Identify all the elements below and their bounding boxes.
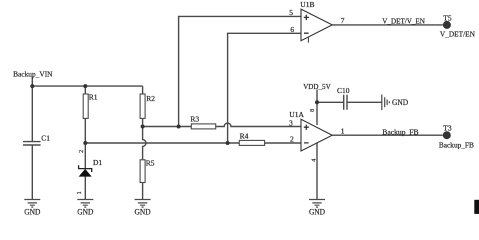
- wire R4 right to U1A pin2: [265, 142, 301, 144]
- resistor R4: [239, 131, 264, 145]
- wire R3 right to U1A pin3 with hop: [216, 123, 301, 126]
- node junction R2/R5/R3: [141, 125, 145, 129]
- svg-text:GND: GND: [135, 208, 151, 217]
- svg-text:R4: R4: [240, 131, 249, 140]
- sheet border fragment (bottom right): [474, 200, 479, 214]
- wire D1 bottom to ground: [84, 177, 86, 200]
- svg-text:3: 3: [289, 118, 293, 127]
- svg-text:5: 5: [289, 8, 293, 17]
- svg-text:R3: R3: [190, 115, 199, 124]
- svg-text:GND: GND: [24, 208, 40, 217]
- svg-text:R2: R2: [146, 94, 155, 103]
- svg-text:GND: GND: [77, 208, 93, 217]
- svg-text:U1B: U1B: [300, 0, 314, 9]
- diode D1 (zener): [77, 150, 102, 195]
- svg-text:2: 2: [290, 135, 294, 144]
- wire D1 top: [84, 143, 86, 168]
- wire C10 to ground: [347, 101, 381, 103]
- wire R2 top: [142, 86, 144, 94]
- wire U1A output to T3: [332, 134, 443, 136]
- wire R1 bottom to node: [84, 118, 86, 143]
- svg-text:GND: GND: [392, 98, 408, 107]
- svg-text:8: 8: [310, 109, 316, 112]
- wire node to R5 top: [143, 127, 146, 160]
- node junction R1/D1/R4: [83, 141, 87, 145]
- svg-text:Backup_FB: Backup_FB: [382, 127, 418, 136]
- svg-text:GND: GND: [309, 208, 325, 217]
- op-amp U1B: [289, 0, 345, 43]
- wire U1B output to T5: [332, 24, 443, 26]
- wire R2 bottom to node: [142, 118, 144, 126]
- wire node to R4 left with hop: [85, 142, 239, 144]
- terminal T5: [440, 13, 476, 38]
- capacitor C10: [337, 86, 350, 110]
- svg-text:Backup_VIN: Backup_VIN: [13, 69, 53, 78]
- svg-text:1: 1: [77, 191, 83, 194]
- svg-text:C10: C10: [337, 86, 350, 95]
- svg-text:6: 6: [290, 25, 294, 34]
- node junction Backup_VIN/C1: [30, 84, 34, 88]
- svg-text:4: 4: [311, 159, 317, 162]
- ground (sideways, right of C10): [382, 95, 408, 111]
- resistor R5: [140, 158, 155, 182]
- wire R5 bottom to ground: [142, 183, 144, 200]
- ground under U1A pin4: [309, 200, 325, 217]
- svg-text:R5: R5: [146, 158, 155, 167]
- wire node to C10: [317, 101, 343, 103]
- svg-text:1: 1: [341, 127, 345, 136]
- wire Backup_VIN rail: [32, 85, 142, 87]
- resistor R2: [140, 94, 155, 119]
- wire C1 top: [31, 86, 33, 141]
- wire to U1B pin5: [179, 16, 301, 126]
- ground under R5: [135, 200, 151, 217]
- wire U1A pin4 to ground: [316, 143, 318, 200]
- node junction rail/R1: [83, 84, 87, 88]
- resistor R3: [190, 115, 215, 129]
- svg-text:7: 7: [341, 16, 345, 25]
- wire U1A pin8: [316, 102, 318, 125]
- terminal T3: [439, 123, 474, 149]
- svg-text:V_DET/V_EN: V_DET/V_EN: [382, 16, 425, 25]
- node Backup_VIN label stub: [31, 77, 33, 87]
- wire C1 bottom to ground: [31, 145, 33, 199]
- svg-text:T3: T3: [443, 123, 452, 132]
- capacitor C1: [23, 134, 50, 146]
- svg-text:2: 2: [79, 150, 85, 153]
- wire VDD_5V stub: [316, 90, 318, 103]
- svg-text:T5: T5: [443, 13, 452, 22]
- node junction VDD/pin8/C10: [315, 100, 319, 104]
- svg-text:V_DET/EN: V_DET/EN: [440, 29, 476, 38]
- op-amp U1A: [289, 109, 345, 162]
- svg-text:R1: R1: [89, 93, 98, 102]
- svg-text:VDD_5V: VDD_5V: [303, 82, 331, 91]
- node junction pin5 branch: [177, 125, 181, 129]
- svg-text:C1: C1: [41, 134, 50, 143]
- resistor R1: [83, 93, 98, 119]
- wire R1 top: [84, 86, 86, 94]
- ground under D1: [77, 200, 93, 217]
- svg-text:D1: D1: [93, 158, 102, 167]
- wire to U1B pin6: [228, 33, 301, 143]
- node junction pin6 branch: [226, 141, 230, 145]
- wire node to R3 left: [143, 126, 192, 128]
- ground under C1: [24, 200, 40, 217]
- svg-text:Backup_FB: Backup_FB: [439, 140, 474, 149]
